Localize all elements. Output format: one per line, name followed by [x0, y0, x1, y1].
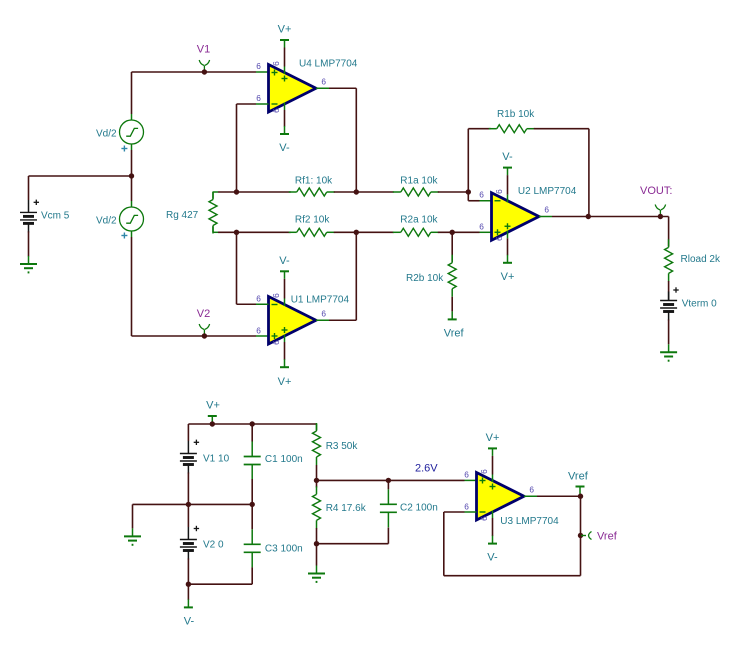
wire V2 to bottom rail	[187, 559, 189, 585]
pin 6 U2 out	[544, 205, 549, 215]
wire V2 net	[132, 335, 269, 337]
voltage source V1 (battery)	[180, 445, 197, 474]
svg-text:R2b 10k: R2b 10k	[406, 273, 444, 284]
wire mid rail	[133, 503, 253, 505]
label Vcm 5	[41, 211, 70, 222]
wire U4 V+ pin	[284, 48, 286, 75]
voltage source Vd/2 (upper)	[120, 114, 144, 150]
label R2b 10k	[406, 273, 444, 284]
plus mark Vcm	[34, 200, 39, 205]
wire Vcm to node	[28, 176, 30, 204]
wire U1 V- pin	[284, 279, 286, 306]
label V+ (U2)	[501, 271, 515, 283]
pin 6 U3 V-	[479, 516, 489, 521]
plus mark V2	[194, 526, 199, 531]
capacitor C1	[244, 442, 261, 480]
junction U4- / Rf1	[234, 189, 239, 194]
svg-text:Vd/2: Vd/2	[96, 216, 117, 227]
wire row1 mid	[334, 191, 394, 193]
svg-text:V-: V-	[279, 142, 290, 154]
wire U3 V- pin	[492, 511, 494, 537]
label V+ (U3)	[486, 432, 500, 444]
wire mid rail to ground	[132, 504, 134, 528]
junction U4out / R1a	[354, 189, 359, 194]
wire 2.6V rail	[317, 479, 477, 481]
wire U4 V- pin	[284, 103, 286, 127]
power V- tack (U2)	[503, 168, 512, 176]
wire U2 V+ pin	[507, 231, 509, 256]
wire U3 V+ pin	[492, 456, 494, 482]
pin 6 U3 out	[529, 485, 534, 495]
junction C2 top	[386, 478, 391, 483]
ground (Vcm)	[20, 256, 37, 272]
capacitor C2	[380, 489, 397, 527]
wire Rload to Vterm	[668, 281, 670, 301]
wire V+ rail	[188, 423, 316, 425]
svg-text:V2: V2	[197, 308, 210, 320]
power V+ tack (U3)	[488, 448, 497, 456]
resistor R2b	[448, 255, 456, 297]
svg-text:6: 6	[256, 294, 261, 304]
terminal Vref tack (R2b)	[448, 311, 457, 319]
svg-text:V-: V-	[487, 552, 498, 564]
wire R3 top corner	[316, 424, 318, 430]
wire U1 V+ pin	[284, 335, 286, 360]
voltage source Vd/2 (lower)	[120, 201, 144, 237]
wire U2 V- pin	[507, 175, 509, 202]
label V1 10	[203, 454, 230, 465]
pin 6 U3 +in	[464, 470, 469, 480]
label Rf2 10k	[295, 215, 330, 226]
ground (R4)	[308, 566, 325, 582]
svg-text:6: 6	[544, 205, 549, 215]
svg-text:Vcm 5: Vcm 5	[41, 211, 70, 222]
junction C1 top	[250, 421, 255, 426]
pin 6 U3 V+	[479, 469, 489, 474]
svg-text:V+: V+	[278, 24, 292, 36]
pin 6 U4 +in	[256, 61, 261, 71]
power V+ tack (U1)	[280, 359, 289, 367]
wire R1b top left	[468, 128, 490, 130]
svg-text:V2 0: V2 0	[203, 540, 224, 551]
label V- (U3)	[487, 552, 498, 564]
label Vd/2 (lower)	[96, 216, 117, 227]
junction R2a / R2b	[450, 230, 455, 235]
junction V1	[202, 69, 207, 74]
resistor Rf2	[289, 228, 335, 236]
voltage source Vcm (battery)	[20, 203, 37, 232]
wire R1b left vertical	[467, 129, 469, 192]
wire C1 bottom lead	[251, 479, 253, 504]
label V1	[197, 44, 210, 56]
junction R3/R4	[314, 478, 319, 483]
svg-text:V+: V+	[486, 432, 500, 444]
svg-text:6: 6	[321, 76, 326, 86]
pin 6 U4 V+	[271, 61, 281, 66]
svg-text:6: 6	[321, 309, 326, 319]
wire V1 net	[132, 71, 269, 73]
wire junction to lower Vd/2	[131, 176, 133, 201]
resistor Rload	[665, 239, 673, 281]
pin 6 U2 +in	[479, 222, 484, 232]
wire C1 top lead	[251, 424, 253, 442]
label 2.6V	[415, 463, 438, 475]
svg-text:C2 100n: C2 100n	[400, 503, 438, 514]
voltage source Vterm (battery)	[660, 292, 677, 321]
pin 6 U1 -in	[256, 294, 261, 304]
svg-text:2.6V: 2.6V	[415, 463, 438, 475]
op-amp U4	[269, 65, 317, 113]
label Rg 427	[166, 210, 199, 221]
label V- (supply)	[184, 615, 195, 627]
svg-text:6: 6	[256, 61, 261, 71]
resistor R2a	[393, 228, 439, 236]
plus mark V1	[194, 440, 199, 445]
label V- (U4)	[279, 142, 290, 154]
wire C3 top lead	[251, 504, 253, 529]
svg-text:6: 6	[494, 236, 504, 241]
wire U4 output branch	[316, 88, 356, 192]
wire row2 right	[438, 231, 492, 233]
wire Rg top corner	[213, 192, 218, 199]
resistor Rg	[209, 192, 217, 234]
plus mark Vterm	[673, 287, 678, 292]
svg-text:R3 50k: R3 50k	[326, 441, 359, 452]
pin 6 U1 out	[321, 309, 326, 319]
label Vref (node name)	[597, 531, 618, 543]
pin 6 U2 V+	[494, 236, 504, 241]
label Rload 2k	[681, 254, 721, 265]
label R1b 10k	[497, 109, 535, 120]
svg-text:6: 6	[479, 516, 489, 521]
label U4 LMP7704	[299, 59, 358, 70]
label V2 0	[203, 540, 224, 551]
junction R1b / output	[586, 214, 591, 219]
junction VOUT	[658, 214, 663, 219]
label U2 LMP7704	[518, 186, 577, 197]
op-amp U3	[477, 473, 525, 521]
svg-text:U1 LMP7704: U1 LMP7704	[291, 295, 350, 306]
junction V+ tack	[210, 421, 215, 426]
svg-text:6: 6	[256, 93, 261, 103]
pin 6 U1 V-	[271, 293, 281, 298]
svg-text:6: 6	[256, 326, 261, 336]
node V2 symbol	[199, 324, 209, 336]
svg-text:V+: V+	[206, 400, 220, 412]
svg-text:6: 6	[479, 469, 489, 474]
power V- tack (U3)	[488, 536, 497, 544]
resistor R3	[313, 423, 321, 465]
svg-text:C3 100n: C3 100n	[265, 544, 303, 555]
svg-text:6: 6	[479, 222, 484, 232]
junction C1/C3	[250, 502, 255, 507]
wire R4 top lead	[316, 480, 318, 487]
svg-text:R1a 10k: R1a 10k	[400, 176, 438, 187]
label R2a 10k	[400, 215, 438, 226]
op-amp U2	[492, 193, 540, 241]
wire U2 output	[539, 216, 669, 218]
svg-text:6: 6	[271, 293, 281, 298]
svg-text:R2a 10k: R2a 10k	[400, 215, 438, 226]
junction R4 bottom	[314, 541, 319, 546]
label R3 50k	[326, 441, 359, 452]
wire Vcm top rail	[29, 175, 132, 177]
svg-text:C1 100n: C1 100n	[265, 454, 303, 465]
ground (Vterm)	[660, 344, 677, 360]
voltage source V2 (battery)	[180, 531, 197, 560]
pin 6 U1 +in	[256, 326, 261, 336]
wire U1 output branch	[316, 232, 356, 320]
node VOUT symbol	[655, 205, 665, 217]
pin 6 U2 V-	[494, 189, 504, 194]
wire V+ rail to V1	[187, 424, 189, 445]
power V- tack (supply)	[184, 599, 193, 607]
power V+ tack (U2)	[503, 255, 512, 263]
label V+ (U1)	[278, 376, 292, 388]
wire U2 -in branch	[468, 192, 491, 201]
svg-text:U2 LMP7704: U2 LMP7704	[518, 186, 577, 197]
resistor R4	[313, 486, 321, 528]
svg-text:Vd/2: Vd/2	[96, 129, 117, 140]
svg-text:6: 6	[271, 108, 281, 113]
svg-text:V-: V-	[184, 615, 195, 627]
wire upper Vd/2 to junction	[131, 150, 133, 176]
label Vref (R2b)	[444, 327, 465, 339]
svg-text:Vref: Vref	[597, 531, 618, 543]
wire Vcm to ground	[28, 231, 30, 256]
label V+ (U4)	[278, 24, 292, 36]
svg-text:U4 LMP7704: U4 LMP7704	[299, 59, 358, 70]
wire R3 bottom	[316, 465, 318, 480]
label U3 LMP7704	[500, 516, 559, 527]
power V+ tack (U4)	[280, 40, 289, 48]
label R1a 10k	[400, 176, 438, 187]
wire bottom rail	[188, 567, 252, 584]
wire U4 -in branch	[237, 104, 269, 192]
svg-text:6: 6	[494, 189, 504, 194]
svg-text:6: 6	[529, 485, 534, 495]
resistor R1a	[393, 188, 439, 196]
svg-text:U3 LMP7704: U3 LMP7704	[500, 516, 559, 527]
wire R1b right vertical	[588, 129, 590, 217]
power V+ tack (supply)	[208, 416, 217, 424]
junction U1out / R2a	[354, 230, 359, 235]
wire U3 feedback	[444, 496, 581, 575]
resistor Rf1	[289, 188, 335, 196]
op-amp U1	[269, 297, 317, 345]
wire C2 rail	[317, 528, 389, 544]
svg-text:V-: V-	[502, 151, 513, 163]
junction V2	[202, 333, 207, 338]
wire U1 -in branch	[237, 232, 269, 304]
power V- tack (U4)	[280, 126, 289, 134]
wire V- stem	[187, 584, 189, 600]
svg-text:V+: V+	[278, 376, 292, 388]
wire R4 bottom	[316, 528, 318, 544]
plus mark Vd/2 lower	[121, 233, 127, 239]
pin 6 U4 out	[321, 76, 326, 86]
svg-text:6: 6	[271, 61, 281, 66]
wire Rg bottom corner	[213, 227, 218, 233]
pin 6 U4 -in	[256, 93, 261, 103]
wire upper Vd/2 to V1	[131, 72, 133, 114]
svg-text:V1 10: V1 10	[203, 454, 230, 465]
svg-text:V+: V+	[501, 271, 515, 283]
wire V1 to mid rail	[187, 473, 189, 505]
label V2	[197, 308, 210, 320]
svg-text:V-: V-	[279, 255, 290, 267]
power V- tack (U1)	[280, 271, 289, 279]
label C1 100n	[265, 454, 303, 465]
resistor R1b	[489, 125, 535, 133]
wire U3 output	[524, 495, 581, 497]
label VOUT:	[640, 185, 672, 197]
junction R1a / R1b / U2-	[466, 189, 471, 194]
label R4 17.6k	[326, 503, 367, 514]
junction U3 output	[578, 494, 583, 499]
junction Vref out node	[578, 533, 583, 538]
label Vd/2 (upper)	[96, 129, 117, 140]
wire row1 left	[218, 191, 291, 193]
label V- (U1)	[279, 255, 290, 267]
label V+ (supply)	[206, 400, 220, 412]
wire row2 mid	[334, 231, 394, 233]
svg-text:Vterm 0: Vterm 0	[682, 299, 717, 310]
label Vterm 0	[682, 299, 717, 310]
label C2 100n	[400, 503, 438, 514]
junction V1/V2	[186, 502, 191, 507]
svg-text:6: 6	[479, 190, 484, 200]
svg-text:V1: V1	[197, 44, 210, 56]
svg-text:Vref: Vref	[568, 471, 589, 483]
pin 6 U2 -in	[479, 190, 484, 200]
pin 6 U1 V+	[271, 340, 281, 345]
junction V2 bottom	[186, 582, 191, 587]
label U1 LMP7704	[291, 295, 350, 306]
plus mark Vd/2 upper	[121, 146, 127, 152]
terminal Vref input tack	[581, 532, 592, 540]
pin 6 U4 V-	[271, 108, 281, 113]
wire R4 to ground	[316, 544, 318, 566]
svg-text:Rload 2k: Rload 2k	[681, 254, 721, 265]
wire VOUT down	[668, 217, 670, 247]
label Vref (output)	[568, 471, 589, 483]
wire R2b top	[451, 232, 453, 261]
junction U1- / Rf2	[234, 230, 239, 235]
svg-text:R4 17.6k: R4 17.6k	[326, 503, 367, 514]
junction between Vd/2 sources	[129, 173, 134, 178]
label Rf1: 10k	[295, 176, 333, 187]
wire mid rail to V2	[187, 504, 189, 530]
svg-text:Rg 427: Rg 427	[166, 210, 199, 221]
wire row2 left	[218, 231, 291, 233]
label V- (U2)	[502, 151, 513, 163]
label C3 100n	[265, 544, 303, 555]
svg-text:6: 6	[271, 340, 281, 345]
wire row1 right	[438, 191, 469, 193]
svg-text:6: 6	[464, 470, 469, 480]
capacitor C3	[244, 529, 261, 567]
wire R1b top right	[534, 128, 589, 130]
ground (supply mid)	[124, 528, 141, 544]
wire Vterm to ground	[668, 320, 670, 345]
svg-text:VOUT:: VOUT:	[640, 185, 672, 197]
pin 6 U3 -in	[464, 502, 469, 512]
svg-text:R1b 10k: R1b 10k	[497, 109, 535, 120]
svg-text:Vref: Vref	[444, 327, 465, 339]
terminal Vref tack (output)	[576, 487, 585, 495]
svg-text:Rf2 10k: Rf2 10k	[295, 215, 330, 226]
svg-text:6: 6	[464, 502, 469, 512]
wire R2b bottom	[451, 297, 453, 312]
svg-text:Rf1: 10k: Rf1: 10k	[295, 176, 333, 187]
wire lower Vd/2 to V2	[131, 237, 133, 336]
node V1 symbol	[199, 60, 209, 72]
wire C2 top lead	[387, 480, 389, 489]
